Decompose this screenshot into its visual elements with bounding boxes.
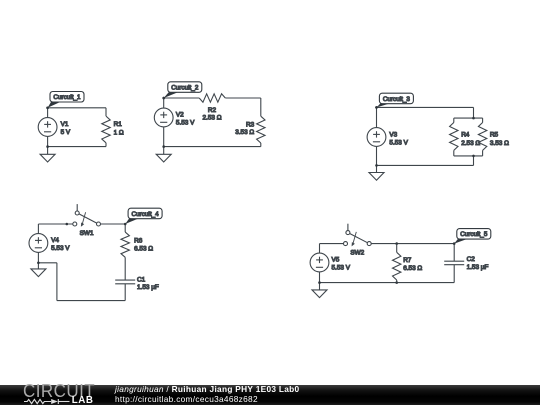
svg-text:R5: R5 [490, 132, 499, 139]
svg-text:C1: C1 [137, 276, 146, 283]
svg-text:Curcuit_5: Curcuit_5 [460, 231, 488, 238]
svg-text:Curcuit_3: Curcuit_3 [383, 96, 411, 103]
svg-text:5.53 V: 5.53 V [389, 139, 408, 146]
svg-text:R3: R3 [246, 121, 255, 128]
svg-text:V4: V4 [51, 237, 59, 244]
svg-text:3.53 Ω: 3.53 Ω [490, 140, 509, 147]
svg-text:1.53 µF: 1.53 µF [137, 284, 159, 291]
svg-text:Curcuit_2: Curcuit_2 [171, 84, 199, 91]
svg-text:2.53 Ω: 2.53 Ω [461, 140, 480, 147]
svg-text:Curcuit_4: Curcuit_4 [132, 211, 160, 218]
svg-text:5.53 V: 5.53 V [51, 245, 70, 252]
svg-text:SW2: SW2 [350, 249, 364, 256]
svg-text:R4: R4 [461, 132, 470, 139]
svg-text:2.53 Ω: 2.53 Ω [203, 115, 222, 122]
svg-text:V3: V3 [389, 132, 397, 139]
svg-text:R6: R6 [134, 238, 143, 245]
svg-text:6.53 Ω: 6.53 Ω [134, 246, 153, 253]
svg-text:1.53 µF: 1.53 µF [467, 264, 489, 271]
svg-text:5 V: 5 V [61, 129, 71, 136]
svg-text:R7: R7 [403, 257, 412, 264]
svg-text:1 Ω: 1 Ω [114, 130, 124, 137]
svg-text:6.53 Ω: 6.53 Ω [403, 265, 422, 272]
svg-text:V1: V1 [61, 121, 69, 128]
svg-text:V2: V2 [176, 112, 184, 119]
svg-text:R2: R2 [208, 107, 217, 114]
svg-text:SW1: SW1 [80, 230, 94, 237]
svg-text:C2: C2 [467, 256, 476, 263]
svg-text:5.53 V: 5.53 V [176, 119, 195, 126]
svg-text:V5: V5 [332, 257, 340, 264]
svg-text:Curcuit_1: Curcuit_1 [53, 94, 81, 101]
svg-text:5.53 V: 5.53 V [332, 264, 351, 271]
svg-text:3.53 Ω: 3.53 Ω [235, 129, 254, 136]
svg-text:R1: R1 [114, 121, 123, 128]
